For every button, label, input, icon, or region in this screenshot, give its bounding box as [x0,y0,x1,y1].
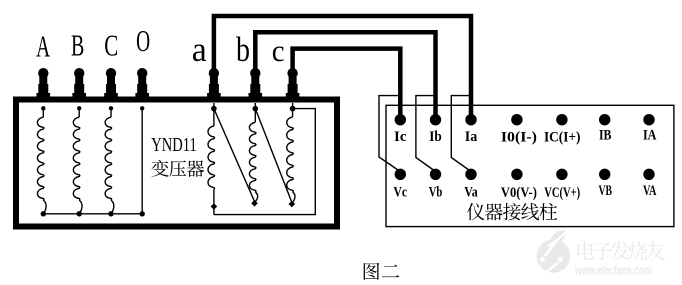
svg-text:IB: IB [599,127,612,144]
winding W-c (secondary phase c) [287,103,296,207]
svg-text:I0(I-): I0(I-) [501,128,537,145]
svg-text:VA: VA [643,182,657,199]
link wire Ib to Vb [416,96,436,171]
svg-text:IC(I+): IC(I+) [544,128,581,145]
wire b to Ib [255,32,435,119]
terminal post B [72,68,86,102]
svg-text:c: c [272,34,285,68]
svg-text:V0(V-): V0(V-) [501,184,537,201]
svg-text:Va: Va [464,184,478,201]
delta jumper wire a-top to b-bottom [214,109,255,202]
wire a to Ia [214,16,471,120]
winding W-b (secondary phase b) [249,103,258,207]
terminal VC(V+) [556,169,567,180]
terminal Ic [395,114,406,125]
svg-text:Ib: Ib [429,128,442,145]
terminal Vb [430,169,441,180]
winding W-C (primary phase C) [105,106,114,216]
svg-text:IA: IA [643,127,657,144]
terminal Va [465,169,476,180]
winding W-a (secondary phase a) [208,103,217,215]
svg-text:www.elecfans.com: www.elecfans.com [574,264,652,278]
winding W-A (primary phase A) [37,106,46,216]
terminal Ib [430,114,441,125]
wye neutral bus wire [43,213,142,215]
terminal post C [104,68,118,102]
instrument terminal box [386,105,674,226]
caption 图二 [364,263,400,280]
terminal post a [207,68,221,102]
label 仪器接线柱 [467,203,557,220]
terminal VA [643,169,654,180]
watermark elecfans logo [537,230,571,273]
transformer enclosure (YND11) [16,100,337,227]
terminal IA [643,114,654,125]
svg-text:C: C [104,28,118,63]
svg-text:Vc: Vc [394,184,408,201]
link wire Ic to Vc [379,96,400,171]
wire c to Ic [293,49,401,120]
link wire Ia to Va [451,96,471,171]
svg-text:O: O [136,23,150,58]
label 变压器 [151,160,204,177]
svg-text:YND11: YND11 [151,134,197,156]
watermark text 电子发烧友 www.elecfans.com [574,241,665,277]
terminal V0(V-) [511,169,522,180]
terminal post O [135,68,149,102]
terminal IC(I+) [556,114,567,125]
terminal Vc [395,169,406,180]
terminal post A [37,68,51,102]
svg-text:A: A [36,28,50,63]
terminal Ia [465,114,476,125]
svg-text:b: b [236,30,250,69]
terminal post c [286,68,300,102]
terminal I0(I-) [511,114,522,125]
terminal VB [599,169,610,180]
svg-text:Vb: Vb [429,184,443,201]
svg-text:VB: VB [598,182,612,199]
neutral conductor O [140,106,145,216]
svg-text:Ia: Ia [465,128,478,145]
delta jumper wire b-top to c-bottom [255,109,291,203]
winding W-B (primary phase B) [73,106,82,216]
terminal post b [249,68,263,102]
delta loop wire c-top to a-bottom [214,109,315,215]
svg-text:a: a [192,30,207,69]
svg-text:Ic: Ic [394,128,407,145]
svg-text:B: B [71,28,84,63]
svg-text:VC(V+): VC(V+) [544,184,580,201]
terminal IB [599,114,610,125]
